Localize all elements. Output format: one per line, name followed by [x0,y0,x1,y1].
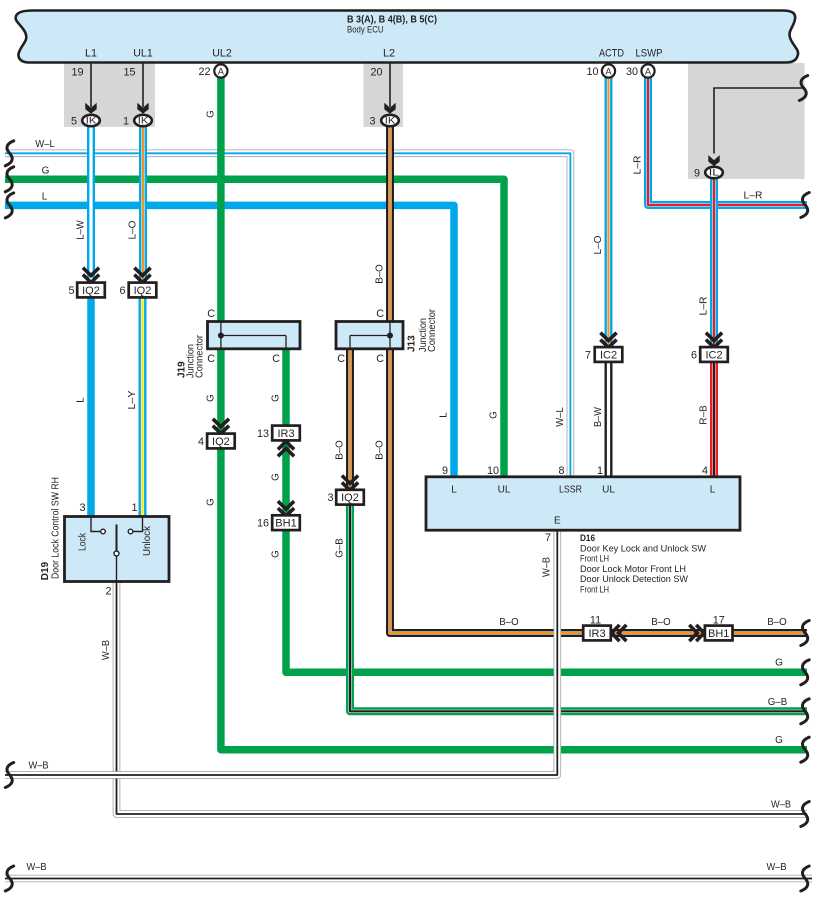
svg-text:R–B: R–B [699,405,710,425]
svg-text:G: G [205,110,216,118]
svg-text:G: G [775,735,783,746]
svg-text:L–R: L–R [744,191,763,202]
svg-text:IQ2: IQ2 [212,436,230,448]
Body ECU band [16,11,798,63]
svg-text:L–W: L–W [76,220,87,240]
relay block connector IQ2 No.6 with arrow [134,268,150,283]
svg-text:IR3: IR3 [588,628,605,640]
shield box behind IK connectors L1/UL1 [64,63,155,127]
svg-text:2: 2 [105,586,111,598]
svg-text:Door Lock Control SW RH: Door Lock Control SW RH [51,477,62,579]
wire R-B from IC2 No.6 to E pin 4 [710,362,718,477]
svg-text:3: 3 [369,115,375,127]
wire L solid from IQ2 No.5 to D19 pin 3 [87,297,95,517]
svg-text:8: 8 [558,465,564,477]
svg-text:D16: D16 [580,533,595,543]
wire L-R from LSWP down then right to edge [648,78,807,206]
svg-text:G: G [271,550,282,558]
svg-text:W–B: W–B [542,557,553,577]
relay block connector BH1 No.16 with arrow [278,501,294,516]
svg-text:Lock: Lock [78,532,89,551]
svg-text:G: G [775,658,783,669]
svg-text:16: 16 [257,518,269,530]
svg-text:1: 1 [123,115,129,127]
svg-text:Body ECU: Body ECU [347,25,384,36]
svg-text:4: 4 [198,436,204,448]
shield box behind IK connector L2 [364,63,404,127]
svg-text:5: 5 [68,285,74,297]
svg-text:L–R: L–R [633,156,644,175]
svg-text:6: 6 [691,350,697,362]
svg-text:W–B: W–B [27,862,47,873]
svg-text:22: 22 [198,66,210,78]
wire W-L horizontal from left edge to corner, down to E pin 8 [5,153,570,476]
pin 19 lead and arrow into IK 5 [90,64,92,108]
svg-text:L–O: L–O [593,235,604,254]
wire W-B from left edge right then up to E pin 7 [5,530,557,775]
svg-text:IK: IK [385,116,396,126]
svg-text:IC2: IC2 [705,349,722,361]
wire B-W from IC2 No.7 to E pin 1 [605,362,613,477]
svg-text:G: G [205,498,216,506]
svg-text:A: A [218,66,224,76]
squiggle right end G-B [801,699,809,724]
relay block connector IQ2 No.3 with arrow [342,476,358,491]
relay block connector IQ2 No.4 with arrow [213,419,229,434]
svg-text:Door Key Lock and Unlock SW: Door Key Lock and Unlock SW [580,543,706,553]
connector IL number 9 [705,167,723,178]
svg-text:L2: L2 [383,48,395,60]
svg-text:6: 6 [119,285,125,297]
wire W-B from D19 pin 2 down then right to edge [117,582,808,814]
wire G thick horizontal from left edge to corner, down to E pin 10 [5,179,504,476]
svg-text:LSWP: LSWP [636,48,663,60]
svg-text:G–B: G–B [768,697,788,708]
squiggle right end B-O [801,621,809,646]
svg-text:B–O: B–O [499,617,519,628]
wire L-Y from IQ2 No.6 to D19 pin 1 [139,297,147,517]
svg-text:C: C [272,353,280,365]
switch D19 Door Lock Control SW RH [65,517,170,582]
connector IK number 3 [381,115,399,126]
svg-text:L–O: L–O [128,220,139,239]
svg-text:Door Unlock Detection SW: Door Unlock Detection SW [580,574,688,584]
svg-text:G: G [271,473,282,481]
connector IK number 5 [82,115,100,126]
squiggle right end first green [801,660,809,685]
svg-text:IL: IL [709,168,720,178]
svg-text:Front LH: Front LH [580,554,609,564]
shield box top right (IL) [688,63,805,179]
svg-text:B–O: B–O [335,440,346,460]
squiggle left end W-B [5,763,13,788]
wire B-O from IK 3 to J13 [386,127,394,322]
svg-text:7: 7 [545,532,551,544]
wire G main UL2 from terminal A down through J19 and IQ2 No.4 then right to edge [221,78,807,750]
svg-text:J13: J13 [407,335,418,352]
svg-text:IK: IK [138,116,149,126]
squiggle right end W-B [801,802,809,827]
svg-text:Unlock: Unlock [142,525,153,556]
svg-text:Front LH: Front LH [580,585,609,595]
svg-text:IR3: IR3 [277,428,294,440]
svg-text:L–R: L–R [699,297,710,316]
junction connector J19 [208,322,301,349]
svg-text:W–B: W–B [771,800,791,811]
svg-text:15: 15 [123,67,135,79]
svg-text:Connector: Connector [195,334,206,378]
svg-text:C: C [337,353,345,365]
svg-text:B–O: B–O [767,617,787,628]
svg-text:LSSR: LSSR [559,485,582,496]
D19 unlock contact [134,517,143,532]
svg-text:1: 1 [597,465,603,477]
D19 switch lever and pivot [116,525,118,551]
svg-text:BH1: BH1 [275,518,296,530]
svg-text:B–O: B–O [651,617,671,628]
svg-text:IQ2: IQ2 [341,492,359,504]
svg-text:E: E [554,516,561,527]
wire L-R from IL 9 to IC2 No.6 [710,179,718,348]
svg-text:B–O: B–O [375,264,386,284]
relay block connector IR3 No.11 with arrow [583,626,611,641]
svg-text:L–Y: L–Y [127,390,138,410]
svg-text:L1: L1 [85,48,97,60]
relay block connector IR3 No.13 with arrow [272,426,300,441]
squiggle right end L-R [801,193,809,218]
squiggle left end L [5,193,13,218]
svg-text:B–W: B–W [593,406,604,427]
svg-text:W–B: W–B [29,761,49,772]
svg-text:9: 9 [442,465,448,477]
squiggle bottom W-B left [5,866,13,891]
squiggle right end second green [801,737,809,762]
svg-text:L: L [42,191,48,202]
svg-text:G: G [489,411,500,419]
svg-text:UL: UL [602,485,615,496]
svg-text:13: 13 [257,428,269,440]
svg-text:30: 30 [626,66,638,78]
relay block connector IC2 No.6 with arrow [706,333,722,348]
svg-text:4: 4 [702,465,708,477]
svg-text:17: 17 [713,615,725,627]
svg-text:G: G [42,166,50,177]
wire B-O from J13 down then right through IR3/BH1 to edge [390,348,807,633]
svg-text:B–O: B–O [375,440,386,460]
relay block connector IQ2 No.5 with arrow [83,268,99,283]
svg-text:IK: IK [86,116,97,126]
squiggle left end W-L [5,141,13,166]
svg-text:L: L [710,485,716,496]
svg-text:19: 19 [71,67,83,79]
svg-text:10: 10 [487,465,499,477]
wire B-O from J13 left leg to IQ2 No.3 [346,348,354,490]
svg-text:L: L [439,412,450,418]
wire G from J19 right leg down through IR3 and BH1 then right to edge [286,348,807,672]
relay block connector IC2 No.7 with arrow [600,333,616,348]
svg-text:ACTD: ACTD [599,48,624,60]
svg-text:W–L: W–L [555,407,566,427]
svg-text:A: A [605,66,611,76]
D19 lock contact [91,517,100,532]
svg-text:L: L [451,485,457,496]
wire L thick horizontal from left edge to corner, down to E pin 9 [5,205,454,476]
svg-text:W–B: W–B [101,640,112,660]
svg-text:1: 1 [131,502,137,514]
svg-text:G: G [271,394,282,402]
svg-text:3: 3 [79,502,85,514]
svg-text:BH1: BH1 [708,628,729,640]
wire L-O from ACTD terminal to IC2 No.7 [605,78,613,348]
wire W-B bottom full width [5,875,812,883]
svg-text:A: A [645,66,651,76]
svg-text:3: 3 [327,492,333,504]
squiggle left end G [5,167,13,192]
svg-text:W–L: W–L [35,139,55,150]
relay block connector BH1 No.17 with arrow [689,625,704,641]
svg-text:L: L [76,397,87,403]
svg-text:5: 5 [71,115,77,127]
connector IK number 1 [134,115,152,126]
svg-text:IQ2: IQ2 [82,285,100,297]
svg-text:UL: UL [498,485,511,496]
wire L-W from IK 5 to IQ2 No.5 [87,127,95,283]
svg-text:G–B: G–B [335,538,346,558]
svg-text:C: C [207,308,215,320]
svg-text:IC2: IC2 [600,349,617,361]
lead from right edge to IL 9 with arrow [714,88,803,154]
svg-text:C: C [376,353,384,365]
svg-text:G: G [205,394,216,402]
svg-text:20: 20 [370,67,382,79]
squiggle bottom W-B right [801,866,809,891]
svg-text:C: C [376,308,384,320]
svg-text:7: 7 [585,350,591,362]
svg-text:Door Lock Motor Front LH: Door Lock Motor Front LH [580,564,686,574]
svg-text:Connector: Connector [427,308,438,352]
connector block E D16 [426,477,740,530]
junction connector J13 [336,322,403,349]
svg-text:UL2: UL2 [212,48,232,60]
wire L-O from IK 1 to IQ2 No.6 [139,127,147,283]
svg-text:11: 11 [590,615,601,627]
svg-text:10: 10 [586,66,598,78]
svg-text:D19: D19 [40,561,51,580]
svg-text:W–B: W–B [767,862,787,873]
svg-text:C: C [207,353,215,365]
svg-text:9: 9 [694,167,700,179]
wire G-B from IQ2 No.3 down then right to edge [350,497,807,711]
pin 20 lead and arrow into IK 3 [389,64,391,108]
pin 15 lead and arrow into IK 1 [142,64,144,108]
svg-text:IQ2: IQ2 [134,285,152,297]
svg-text:UL1: UL1 [133,48,153,60]
